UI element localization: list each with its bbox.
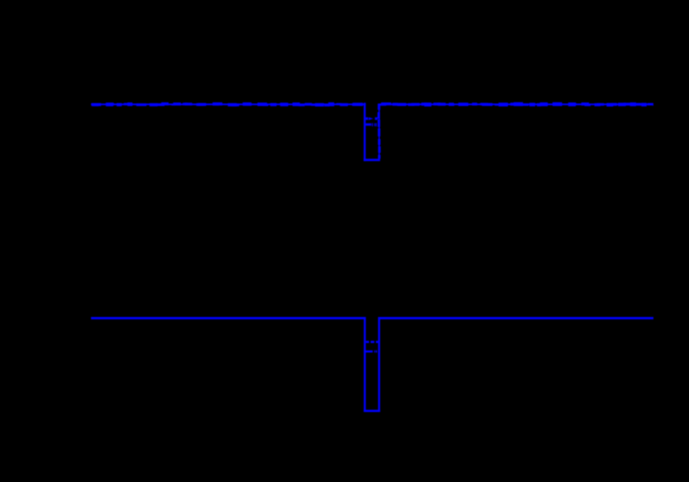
wire: bottom through-line right segment [378,317,653,319]
TL2 inner dimension marks row 2 (label ticks) [364,350,377,352]
wire: top through-line left segment (dashed style) [91,102,366,106]
TL1 inner dimension marks row 1 (arrow) [366,117,378,120]
open stub TL1: bottom end [364,159,380,161]
wire: top through-line right segment (dashed style) [378,102,653,106]
open stub TL1: left wall [364,103,366,161]
open stub TL2: left wall [364,317,366,412]
TL1 inner dimension marks row 2 (label ticks) [366,123,377,126]
TL2 inner dimension marks row 1 (dashed) [366,341,378,343]
open stub TL2: bottom end [364,410,380,412]
open stub TL2: right wall [378,317,380,412]
open stub TL1: right wall (dashed style) [378,104,381,159]
wire: bottom through-line left segment [91,317,366,319]
